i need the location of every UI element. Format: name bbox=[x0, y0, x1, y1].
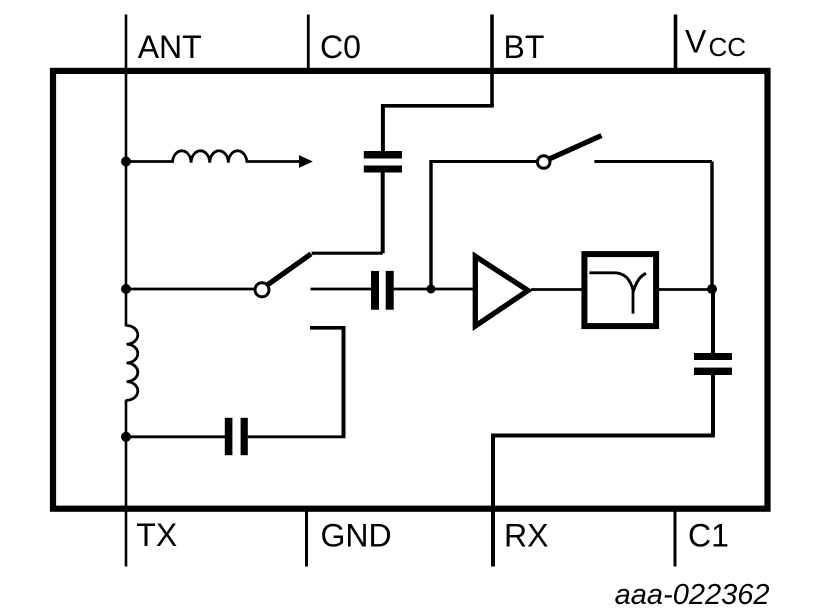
wire riser up bbox=[342, 328, 346, 437]
filter F1 response curve right branch bbox=[633, 273, 646, 292]
wire ANT vertical bus upper bbox=[125, 69, 128, 327]
arrowhead bbox=[299, 155, 313, 168]
inductor L2 vertical bbox=[127, 326, 138, 401]
capacitor C0 plate 2 bbox=[364, 166, 402, 173]
switch S1 lever bbox=[268, 254, 311, 285]
capacitor C2 plate 1 bbox=[371, 271, 379, 310]
wire BT down to capacitor C0 bbox=[381, 104, 385, 151]
inductor L1 bbox=[173, 151, 247, 163]
switch S1 pole bbox=[255, 283, 269, 297]
svg-text:TX: TX bbox=[136, 517, 177, 553]
wire ANT vertical bus lower bbox=[125, 400, 128, 512]
svg-text:C1: C1 bbox=[688, 518, 729, 554]
node A bbox=[427, 285, 436, 294]
node ANT/switch row bbox=[121, 284, 131, 294]
wire inductor to arrow bbox=[247, 160, 300, 163]
wire bypass row to switch S2 bbox=[429, 160, 536, 163]
wire to inductor L1 bbox=[126, 160, 173, 163]
wire ANT to switch S1 bbox=[126, 288, 254, 291]
wire capacitor C3 to riser bbox=[248, 435, 346, 438]
wire capacitor C2 to node A bbox=[394, 288, 431, 291]
svg-text:V: V bbox=[685, 24, 707, 60]
pin RX bbox=[491, 511, 495, 567]
pin ANT bbox=[125, 15, 128, 70]
wire TX row to capacitor C3 bbox=[126, 435, 225, 438]
wire switch middle contact to capacitor bbox=[311, 288, 372, 291]
wire amplifier to filter bbox=[531, 288, 585, 291]
wire BT internal drop bbox=[490, 69, 494, 106]
svg-text:GND: GND bbox=[321, 518, 392, 554]
node ANT/TX row bbox=[121, 432, 131, 442]
pin BT bbox=[490, 15, 494, 70]
pin C1 bbox=[674, 511, 677, 567]
switch S2 lever bbox=[550, 136, 602, 159]
pin GND bbox=[305, 511, 308, 567]
capacitor C0 plate 1 bbox=[364, 151, 402, 159]
filter F1 response curve bbox=[589, 273, 633, 314]
pin TX bbox=[125, 511, 128, 567]
capacitor C3 plate 1 bbox=[225, 418, 233, 455]
capacitor C2 plate 2 bbox=[386, 271, 394, 310]
wire switch S2 contact to node B bbox=[594, 160, 712, 163]
capacitor C1 plate 1 bbox=[694, 353, 732, 360]
filter F1 box bbox=[584, 254, 656, 326]
switch S2 pole bbox=[537, 156, 550, 169]
capacitor C1 plate 2 bbox=[694, 368, 732, 375]
wire switch upper throw contact bbox=[312, 252, 383, 255]
amplifier U1 bbox=[475, 256, 528, 326]
wire node A to amplifier bbox=[431, 288, 473, 291]
pin VCC bbox=[674, 15, 678, 70]
wire C1 branch horizontal to RX bbox=[493, 434, 715, 438]
IC outline box bbox=[53, 71, 768, 509]
svg-text:aaa-022362: aaa-022362 bbox=[615, 579, 770, 611]
node B bbox=[707, 284, 717, 294]
wire capacitor C1 lower lead bbox=[711, 375, 715, 436]
wire node A up to bypass row bbox=[429, 162, 432, 290]
svg-text:ANT: ANT bbox=[138, 29, 202, 65]
wire BT horizontal bbox=[383, 104, 494, 108]
wire RX internal drop bbox=[491, 434, 495, 512]
pin C0 bbox=[307, 15, 310, 70]
node ANT/inductor bbox=[121, 157, 131, 167]
wire filter to node B bbox=[656, 288, 712, 291]
svg-text:C0: C0 bbox=[320, 29, 361, 65]
wire node B down to capacitor C1 bbox=[711, 289, 715, 353]
svg-text:BT: BT bbox=[504, 29, 545, 65]
wire bypass down to node B bbox=[710, 162, 713, 290]
wire switch lower throw contact bbox=[310, 326, 346, 330]
wire capacitor C0 lower lead bbox=[381, 173, 385, 254]
svg-text:RX: RX bbox=[504, 518, 548, 554]
capacitor C3 plate 2 bbox=[241, 418, 248, 455]
svg-text:CC: CC bbox=[709, 32, 747, 62]
